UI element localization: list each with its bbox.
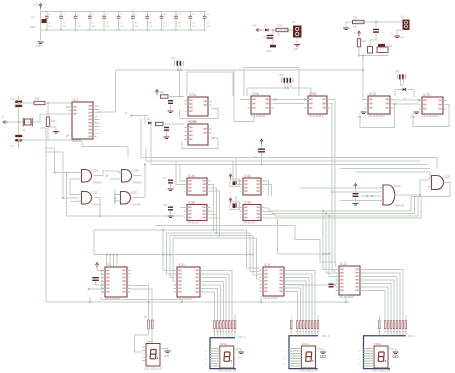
svg-text:IC2E: IC2E xyxy=(444,175,450,179)
svg-text:74HC4518N: 74HC4518N xyxy=(422,114,439,118)
svg-text:.1uF: .1uF xyxy=(105,26,110,28)
svg-text:RN_4: RN_4 xyxy=(408,334,415,338)
svg-text:.1uF: .1uF xyxy=(191,26,196,28)
svg-text:IC12: IC12 xyxy=(340,262,347,266)
svg-text:74HC08: 74HC08 xyxy=(132,181,142,185)
svg-text:74HC390N: 74HC390N xyxy=(308,114,323,118)
svg-text:.1uF: .1uF xyxy=(62,26,67,28)
svg-text:.1uF: .1uF xyxy=(163,26,168,28)
svg-text:LSD_A512_RT: LSD_A512_RT xyxy=(218,368,237,372)
svg-text:GND: GND xyxy=(399,37,404,39)
svg-text:IC4A: IC4A xyxy=(244,174,252,178)
svg-text:IC2D: IC2D xyxy=(131,191,137,195)
svg-text:74HC157: 74HC157 xyxy=(187,221,200,225)
svg-text:IC6A: IC6A xyxy=(252,92,260,96)
svg-text:.1uF: .1uF xyxy=(91,26,96,28)
svg-text:R18: R18 xyxy=(277,25,282,28)
svg-text:IC10: IC10 xyxy=(178,263,185,267)
svg-text:JP2: JP2 xyxy=(279,74,284,77)
svg-text:74HC390N: 74HC390N xyxy=(251,114,266,118)
svg-text:IC3B: IC3B xyxy=(188,200,195,204)
svg-text:74HC30: 74HC30 xyxy=(395,204,405,208)
svg-text:IC2A: IC2A xyxy=(92,169,98,173)
svg-text:74HC4518N: 74HC4518N xyxy=(368,114,385,118)
svg-text:IC6B: IC6B xyxy=(309,92,316,96)
svg-text:R14: R14 xyxy=(35,98,40,101)
svg-text:IC7B: IC7B xyxy=(423,93,430,97)
svg-text:74HC08: 74HC08 xyxy=(92,203,102,207)
svg-text:C16: C16 xyxy=(10,98,15,101)
svg-text:IC4B: IC4B xyxy=(244,200,251,204)
svg-text:C17: C17 xyxy=(10,145,15,148)
svg-text:GND: GND xyxy=(164,356,169,358)
svg-text:C15: C15 xyxy=(263,36,268,39)
svg-text:IC3A: IC3A xyxy=(188,174,196,178)
svg-text:IC7A: IC7A xyxy=(369,92,377,96)
svg-text:4060N: 4060N xyxy=(72,139,81,143)
svg-text:IC2C: IC2C xyxy=(92,191,98,195)
svg-text:+9V: +9V xyxy=(252,25,257,28)
svg-text:IC11: IC11 xyxy=(264,263,271,267)
svg-text:GND: GND xyxy=(36,45,42,48)
svg-text:JP3: JP3 xyxy=(395,71,400,74)
svg-text:JP1: JP1 xyxy=(171,57,176,60)
svg-text:IC5B: IC5B xyxy=(189,120,196,124)
svg-text:IC2B: IC2B xyxy=(132,169,138,173)
svg-text:LSD_A512_RT: LSD_A512_RT xyxy=(144,366,163,370)
svg-text:.1uF: .1uF xyxy=(148,26,153,28)
svg-text:LSD_A512_RT: LSD_A512_RT xyxy=(300,368,319,372)
svg-text:LSD_A512_RT: LSD_A512_RT xyxy=(372,368,391,372)
svg-text:C10: C10 xyxy=(163,205,168,207)
svg-text:R17: R17 xyxy=(362,41,367,43)
svg-text:DIS1: DIS1 xyxy=(147,340,154,344)
svg-text:DIS2: DIS2 xyxy=(220,342,227,346)
svg-text:DIS3: DIS3 xyxy=(302,342,309,346)
svg-text:.1uF: .1uF xyxy=(206,26,211,28)
svg-text:VCC: VCC xyxy=(34,4,39,7)
svg-text:100u: 100u xyxy=(30,25,36,29)
svg-text:.1uF: .1uF xyxy=(120,26,125,28)
svg-text:.1uF: .1uF xyxy=(177,26,182,28)
svg-text:IC1: IC1 xyxy=(73,98,78,102)
svg-text:C1: C1 xyxy=(31,15,35,19)
svg-text:10K: 10K xyxy=(353,26,358,29)
svg-text:GND: GND xyxy=(238,357,243,359)
svg-text:DIS4: DIS4 xyxy=(375,342,382,346)
svg-text:RN_3: RN_3 xyxy=(323,334,330,338)
svg-text:74HC08: 74HC08 xyxy=(92,181,102,185)
svg-text:R15: R15 xyxy=(353,17,358,20)
svg-text:74HC08: 74HC08 xyxy=(131,203,141,207)
svg-text:IC5A: IC5A xyxy=(189,93,197,97)
svg-text:.1uF: .1uF xyxy=(77,26,82,28)
svg-text:IC8A: IC8A xyxy=(395,184,401,188)
svg-text:74HC192N: 74HC192N xyxy=(263,296,278,300)
svg-text:GND: GND xyxy=(293,49,298,51)
svg-text:R13: R13 xyxy=(51,121,56,123)
svg-text:.1uF: .1uF xyxy=(134,26,139,28)
svg-text:.1uF: .1uF xyxy=(48,26,53,28)
svg-text:74HC157: 74HC157 xyxy=(243,221,256,225)
svg-text:RN_2: RN_2 xyxy=(239,335,246,339)
svg-text:100u: 100u xyxy=(266,50,272,53)
